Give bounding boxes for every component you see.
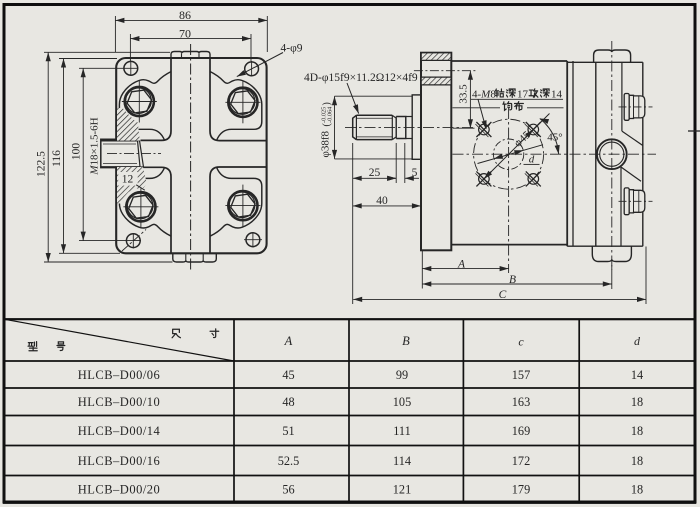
svg-text:-0.064: -0.064 xyxy=(326,106,333,123)
dim 5 xyxy=(404,143,406,183)
drilled hole end taper xyxy=(138,141,144,167)
svg-text:d: d xyxy=(634,334,641,348)
svg-text:M18×1.5-6H: M18×1.5-6H xyxy=(89,117,101,175)
svg-text:179: 179 xyxy=(512,482,530,496)
svg-text:100: 100 xyxy=(71,143,83,161)
svg-text:48: 48 xyxy=(282,395,294,409)
svg-text:122.5: 122.5 xyxy=(36,151,48,177)
M8 tapped hole at (484,179) xyxy=(479,174,490,185)
svg-text:17: 17 xyxy=(517,89,529,101)
dim A xyxy=(421,251,423,289)
svg-text:169: 169 xyxy=(512,424,530,438)
corner hole BR (phi9) xyxy=(246,233,260,247)
pump body block xyxy=(451,60,567,62)
bottom boss (3-lobe) xyxy=(173,253,217,262)
svg-text:C: C xyxy=(499,289,507,301)
svg-text:A: A xyxy=(284,334,293,348)
mounting flange (side) xyxy=(421,53,451,251)
label phi38f8 tolerance, rotated xyxy=(320,102,334,157)
dim 86 xyxy=(114,16,116,52)
rear hex bolt at y=106.9 xyxy=(624,94,629,121)
svg-text:4-φ9: 4-φ9 xyxy=(281,42,303,54)
header: chi-cun (dimensions) xyxy=(172,329,180,337)
table row lines xyxy=(4,360,695,362)
hex bolt at (243,102) xyxy=(228,88,257,117)
shaft plain section xyxy=(396,117,406,139)
body horizontal centerline xyxy=(453,153,657,155)
dim 100 xyxy=(79,67,138,69)
svg-text:45°: 45° xyxy=(547,132,562,144)
M8 tapped hole at (533,179) xyxy=(528,174,539,185)
side view shaft centerline xyxy=(345,127,476,129)
end cap right edge xyxy=(642,62,644,246)
corner hole BL (phi9) xyxy=(126,234,140,248)
svg-text:c: c xyxy=(518,335,524,349)
M18 port boss protruding left, section xyxy=(115,118,117,131)
fold tick right border xyxy=(688,130,700,132)
table column lines xyxy=(233,319,235,503)
svg-text:HLCB–D00/10: HLCB–D00/10 xyxy=(78,395,161,409)
cross boss: vertical band right edge w/ fillets to horizontal arm xyxy=(210,58,267,141)
dim C xyxy=(645,247,647,305)
bolt pad scallop UL xyxy=(119,72,171,141)
corner hole TR (phi9) xyxy=(245,62,259,76)
svg-text:33.5: 33.5 xyxy=(458,84,470,104)
hex bolt at (141,207) xyxy=(126,192,155,221)
svg-text:14: 14 xyxy=(631,368,643,382)
svg-text:φ38f8: φ38f8 xyxy=(320,130,332,157)
dim B xyxy=(611,265,613,289)
svg-text:HLCB–D00/16: HLCB–D00/16 xyxy=(78,454,161,468)
svg-text:14: 14 xyxy=(551,89,563,101)
hex bolt at (243,206) xyxy=(228,191,257,220)
dim 70 xyxy=(129,34,131,61)
svg-text:86: 86 xyxy=(179,8,191,22)
45 degree arc dimension xyxy=(540,119,559,155)
svg-text:HLCB–D00/14: HLCB–D00/14 xyxy=(78,424,161,438)
inner bore circle xyxy=(493,139,523,169)
cross boss: vertical band left edge w/ fillets to horizontal arm xyxy=(141,58,172,140)
svg-text:116: 116 xyxy=(51,150,63,167)
svg-text:4D-φ15f9×11.2Ω12×4f9: 4D-φ15f9×11.2Ω12×4f9 xyxy=(304,72,418,84)
table outer frame xyxy=(4,319,695,503)
bolt circle phi45 (dash-dot) xyxy=(474,119,544,189)
shaft threaded section xyxy=(353,115,393,139)
svg-text:B: B xyxy=(509,274,516,286)
bolt pad scallop UR xyxy=(210,72,262,141)
svg-text:4-M8: 4-M8 xyxy=(472,89,496,101)
cap inner step lines + chamfer diagonals xyxy=(621,62,623,131)
svg-text:18: 18 xyxy=(631,395,643,409)
svg-text:121: 121 xyxy=(393,482,411,496)
cover plate xyxy=(595,62,597,246)
svg-text:HLCB–D00/20: HLCB–D00/20 xyxy=(78,482,161,496)
port hole top/bottom edges xyxy=(101,140,138,142)
svg-text:d: d xyxy=(529,154,535,166)
rear hex bolt at y=201.3 xyxy=(624,188,629,215)
dim d diagonal (gear centre distance) xyxy=(478,145,544,164)
body/cover joint xyxy=(572,61,574,246)
header: xing-hao (model) xyxy=(28,342,37,351)
cap vertical centerline xyxy=(611,41,613,270)
hatch lower patch xyxy=(117,167,147,204)
cap top boss xyxy=(594,50,631,62)
hatch upper patch xyxy=(117,108,140,141)
svg-text:45: 45 xyxy=(282,368,294,382)
spigot phi38 xyxy=(412,95,421,159)
front view: pump mounting plate outline xyxy=(116,58,266,253)
port boss outline xyxy=(115,140,118,166)
svg-text:172: 172 xyxy=(512,454,530,468)
dim 122.5 xyxy=(44,51,170,53)
svg-text:111: 111 xyxy=(393,424,411,438)
cap bottom boss xyxy=(592,246,631,261)
thread minor lines xyxy=(103,143,136,145)
svg-text:18: 18 xyxy=(631,424,643,438)
svg-text:25: 25 xyxy=(369,167,381,179)
svg-text:18: 18 xyxy=(631,482,643,496)
svg-text:18: 18 xyxy=(631,454,643,468)
svg-text:): ) xyxy=(322,102,333,105)
M8 tapped hole at (533,130) xyxy=(528,124,539,135)
header diagonal split xyxy=(4,319,234,361)
svg-text:B: B xyxy=(402,334,410,348)
thread minor diameter lines xyxy=(356,117,392,119)
svg-text:114: 114 xyxy=(393,454,411,468)
svg-text:51: 51 xyxy=(282,424,294,438)
label junbu (evenly spaced) xyxy=(503,102,512,111)
dim 25 xyxy=(352,143,354,304)
front view vertical centerline xyxy=(190,44,192,273)
bolt pad scallop LL xyxy=(119,167,171,236)
M8 tapped hole at (484,130) xyxy=(479,124,490,135)
svg-text:157: 157 xyxy=(512,368,530,382)
svg-text:HLCB–D00/06: HLCB–D00/06 xyxy=(78,368,161,382)
svg-text:56: 56 xyxy=(282,482,294,496)
dim phi45 diagonal xyxy=(484,114,550,179)
svg-text:163: 163 xyxy=(512,395,530,409)
svg-text:A: A xyxy=(457,258,466,270)
dim phi38 vertical xyxy=(334,96,336,159)
hex bolt at (139,102) xyxy=(125,87,154,116)
bolt circle vertical centerline xyxy=(508,108,510,273)
port axis centerline xyxy=(414,70,476,72)
svg-text:5: 5 xyxy=(412,167,418,179)
svg-text:40: 40 xyxy=(376,195,388,207)
dim 116 xyxy=(59,58,117,60)
svg-text:52.5: 52.5 xyxy=(278,454,300,468)
dim 33.5 xyxy=(469,71,471,129)
svg-text:99: 99 xyxy=(396,368,408,382)
flange top port slot + hatch xyxy=(422,53,451,60)
corner hole TL (phi9) xyxy=(124,61,138,75)
port centerline xyxy=(107,153,161,155)
svg-text:70: 70 xyxy=(179,26,191,40)
dim 40 xyxy=(353,205,421,207)
bolt pad scallop LR xyxy=(210,167,262,236)
side port circle xyxy=(597,139,627,169)
svg-text:105: 105 xyxy=(393,395,411,409)
top boss (3-lobe) xyxy=(171,52,210,59)
svg-text:12: 12 xyxy=(122,174,134,186)
